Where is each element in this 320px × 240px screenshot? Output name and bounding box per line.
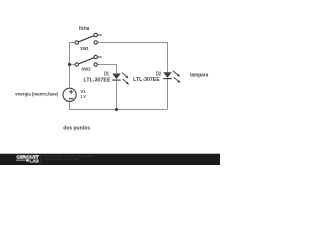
svg-text:SW2: SW2	[81, 67, 90, 73]
wire SW2 throw to right then down to D1	[98, 65, 117, 74]
switch SW1 upper throw contact	[94, 33, 97, 36]
junction dot on left bus at SW2 branch	[68, 63, 71, 66]
svg-text:ficha: ficha	[79, 26, 89, 32]
voltage source V1 circle	[63, 88, 76, 101]
switch SW2 pole contact	[75, 63, 78, 66]
wire D2 cathode down to bottom bus	[167, 79, 169, 109]
wire bottom bus from V1 to D2 branch	[70, 101, 168, 109]
switch SW2 upper throw stub	[98, 56, 102, 58]
switch SW2 lower throw contact	[94, 63, 97, 66]
switch SW2 lever	[78, 58, 94, 64]
switch SW1 pole contact	[75, 41, 78, 44]
wire D1 cathode down to bottom bus	[116, 81, 118, 110]
V1 minus sign	[69, 98, 73, 100]
svg-text:energia (neutro,fase): energia (neutro,fase)	[15, 92, 58, 98]
watermark divider	[40, 155, 42, 163]
watermark logo icon	[26, 159, 29, 161]
svg-text:http://circuitlab.com/c/7n5j8: http://circuitlab.com/c/7n5j8	[44, 157, 79, 161]
LED D1 triangle	[112, 74, 120, 80]
svg-text:LAB: LAB	[30, 158, 39, 163]
svg-text:1 V: 1 V	[80, 94, 86, 99]
V1 plus sign	[69, 91, 73, 93]
wire SW1 throw to right then down to D2	[98, 43, 168, 73]
LED D1 emission arrow 1	[122, 73, 128, 79]
switch SW1 lever	[78, 36, 94, 42]
LED D2 emission arrow 1	[173, 71, 180, 77]
svg-text:LTL-307EE: LTL-307EE	[84, 77, 112, 83]
wire left bus vertical (V1 top to SW1 pole row)	[70, 43, 75, 89]
svg-text:SW1: SW1	[80, 46, 89, 52]
switch SW1 lower throw contact	[94, 41, 97, 44]
LED D2 emission arrow 2	[174, 77, 181, 83]
svg-text:dos puntos: dos puntos	[79, 154, 93, 158]
junction dot on bottom bus at D1	[115, 108, 118, 111]
LED D2 cathode bar	[163, 78, 171, 80]
switch SW1 upper throw stub	[98, 34, 102, 36]
LED D1 cathode bar	[112, 79, 120, 81]
svg-text:dos puntos: dos puntos	[63, 126, 90, 132]
watermark bar	[0, 154, 220, 165]
LED D2 triangle	[163, 72, 171, 78]
wire SW2 pole branch	[70, 64, 75, 66]
switch SW2 upper throw contact	[94, 55, 97, 58]
svg-text:LTL-307EE: LTL-307EE	[133, 77, 160, 83]
watermark logo underline	[16, 159, 26, 161]
svg-text:lampara: lampara	[190, 73, 208, 79]
LED D1 emission arrow 2	[123, 79, 129, 85]
